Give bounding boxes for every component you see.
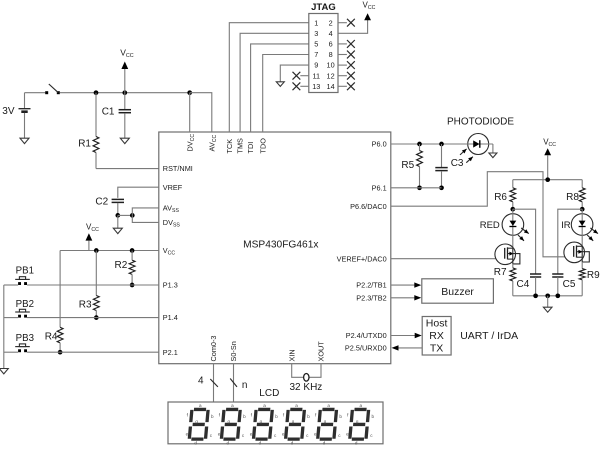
svg-text:n: n [242, 380, 248, 391]
ground below C2 [117, 215, 119, 228]
node junction R2 top [130, 248, 135, 253]
bus slash 4 [210, 379, 218, 387]
svg-text:C2: C2 [95, 196, 108, 207]
wire R6 junction to C4 [513, 209, 536, 274]
node junction R1 [94, 90, 99, 95]
wire DVcc to MCU [189, 93, 191, 132]
supply Vcc symbol top-left [124, 65, 126, 70]
resistor R5 [419, 144, 421, 151]
wire P2.1 line [4, 351, 18, 353]
photodiode symbol [473, 140, 479, 147]
svg-text:C4: C4 [517, 279, 530, 290]
LCD 7-segment digit 5 [314, 403, 342, 445]
svg-text:14: 14 [327, 82, 335, 91]
svg-text:Com0-3: Com0-3 [209, 336, 218, 362]
svg-text:TMS: TMS [236, 138, 245, 154]
wire P2.2/TB1 to buzzer [391, 284, 415, 286]
wire RED MOSFET source to R7 [512, 264, 514, 268]
battery B1 3V [24, 93, 26, 108]
LED RED emission arrows [521, 228, 529, 234]
wire P2.3/TB2 to buzzer [391, 297, 415, 299]
svg-text:C1: C1 [102, 107, 115, 118]
svg-text:R3: R3 [79, 299, 92, 310]
no-connect X JTAG pin11 [300, 75, 309, 77]
no-connect X JTAG pin12 [338, 75, 347, 77]
resistor R6 [512, 180, 514, 188]
svg-text:TX: TX [430, 342, 443, 354]
svg-text:RX: RX [429, 330, 444, 342]
svg-text:TDI: TDI [246, 142, 255, 154]
svg-text:R6: R6 [494, 192, 507, 203]
LCD display module [168, 402, 383, 444]
svg-text:UART / IrDA: UART / IrDA [460, 330, 518, 342]
node junction C1/Vcc [122, 90, 127, 95]
node junction AVss DVss [130, 213, 135, 218]
wire AVss [132, 208, 159, 216]
wire TDO to JTAG pin7 [263, 55, 309, 133]
LCD 7-segment digit 3 [250, 403, 278, 445]
wire LED Vcc rail [513, 179, 582, 181]
capacitor C1 [124, 93, 126, 110]
wire P2.4/UTXD0 to host RX [391, 335, 415, 337]
svg-text:VREF: VREF [163, 183, 183, 192]
node junction DVcc [187, 90, 192, 95]
push button PB2 [18, 315, 21, 318]
wire TMS to JTAG pin3 [240, 33, 309, 132]
ground below battery [20, 138, 29, 143]
svg-text:P2.4/UTXD0: P2.4/UTXD0 [346, 331, 387, 340]
svg-text:P6.6/DAC0: P6.6/DAC0 [350, 202, 387, 211]
crystal Y1 32 KHz [304, 374, 309, 382]
svg-text:13: 13 [312, 82, 320, 91]
wire push button common to ground [3, 285, 5, 368]
svg-text:2: 2 [329, 18, 333, 27]
svg-text:8: 8 [329, 50, 333, 59]
capacitor C3 [441, 144, 443, 167]
svg-text:32 KHz: 32 KHz [290, 382, 323, 393]
LCD 7-segment digit 6 [346, 403, 374, 445]
wire JTAG pin9 to ground [280, 65, 309, 82]
LED RED D2 [502, 214, 524, 236]
svg-text:11: 11 [313, 71, 321, 80]
svg-text:10: 10 [327, 61, 335, 70]
LED IR D3 [571, 214, 593, 236]
wire VREF to C2 [118, 187, 159, 198]
no-connect X JTAG pin10 [338, 64, 347, 66]
svg-text:6: 6 [329, 40, 333, 49]
no-connect X JTAG pin14 [338, 85, 347, 87]
wire JTAG pin4 to Vcc [338, 20, 368, 34]
node junction C4 bottom [533, 293, 538, 298]
wire VEREF+/DAC0 to RED MOSFET gate [391, 258, 505, 260]
ground LED rail [543, 307, 552, 312]
svg-text:R7: R7 [494, 267, 507, 278]
svg-text:PHOTODIODE: PHOTODIODE [447, 116, 514, 127]
node junction C3 top [439, 142, 444, 147]
svg-text:PB1: PB1 [16, 265, 34, 276]
node junction ground rail [545, 293, 550, 298]
svg-text:TDO: TDO [258, 138, 267, 154]
svg-text:C3: C3 [451, 158, 464, 169]
node junction C3 bottom [439, 185, 444, 190]
svg-text:1: 1 [314, 18, 318, 27]
wire S0-Sn to LCD [233, 364, 235, 402]
node junction R6 bottom [510, 207, 515, 212]
svg-text:3: 3 [314, 29, 318, 38]
wire R1 to RST/NMI [96, 168, 159, 170]
svg-text:TCK: TCK [225, 139, 234, 154]
photodiode D1 [468, 134, 489, 155]
wire XOUT to crystal [309, 364, 321, 378]
buzzer module [422, 279, 494, 303]
resistor R9 [579, 269, 585, 280]
svg-text:VEREF+/DAC0: VEREF+/DAC0 [337, 254, 387, 263]
node junction R3 bottom on P1.4 [94, 315, 99, 320]
wire Vcc rail to pull-ups [60, 250, 159, 252]
svg-text:P2.3/TB2: P2.3/TB2 [356, 293, 386, 302]
svg-text:MSP430FG461x: MSP430FG461x [243, 240, 318, 251]
svg-text:R5: R5 [401, 160, 414, 171]
bus slash n [230, 379, 237, 387]
LCD 7-segment digit 2 [218, 403, 246, 445]
node junction Vcc rail [545, 177, 550, 182]
capacitor C2 [112, 198, 124, 200]
svg-text:P2.2/TB1: P2.2/TB1 [356, 281, 386, 290]
svg-text:Buzzer: Buzzer [441, 286, 474, 298]
node junction R3 top [94, 248, 99, 253]
svg-text:4: 4 [329, 29, 333, 38]
photodiode incident light arrows [460, 149, 467, 155]
resistor R1 [95, 93, 97, 137]
node junction R2 bottom on P1.3 [130, 283, 135, 288]
no-connect X JTAG pin8 [338, 54, 347, 56]
wire AVcc to MCU [190, 93, 212, 132]
LCD 7-segment digit 4 [282, 403, 310, 445]
svg-text:P1.3: P1.3 [163, 281, 178, 290]
supply Vcc symbol LED rail [547, 151, 549, 155]
no-connect X JTAG pin2 [338, 22, 347, 24]
svg-text:P6.1: P6.1 [372, 183, 387, 192]
svg-text:XOUT: XOUT [317, 341, 326, 362]
svg-text:PB2: PB2 [16, 299, 34, 310]
svg-text:12: 12 [327, 71, 335, 80]
host interface box [422, 317, 451, 356]
MOSFET Q1 RED driver [495, 244, 516, 265]
svg-text:IR: IR [561, 220, 571, 231]
supply Vcc symbol pull-up rail [88, 236, 90, 240]
svg-text:9: 9 [314, 61, 318, 70]
wire switch to Vcc rail [60, 92, 190, 94]
wire TCK to JTAG pin1 [229, 23, 308, 132]
capacitor C4 [530, 273, 541, 275]
svg-text:R2: R2 [115, 260, 128, 271]
resistor R7 [510, 268, 516, 281]
capacitor C5 [552, 273, 563, 275]
resistor R8 [581, 180, 583, 188]
svg-text:R1: R1 [78, 139, 91, 150]
wire rail to ground [547, 296, 549, 307]
switch S1 [25, 92, 46, 94]
push button PB1 [18, 282, 21, 285]
wire P1.4 line [4, 317, 18, 319]
MOSFET Q2 IR driver [564, 242, 585, 263]
wire P1.3 line [4, 284, 18, 286]
resistor R3 [95, 251, 97, 296]
wire host TX to P2.5/URXD0 [398, 347, 422, 349]
svg-text:PB3: PB3 [16, 333, 34, 344]
ground photodiode [489, 153, 497, 158]
push button PB3 [18, 349, 21, 352]
resistor R4 [59, 251, 61, 328]
node junction R4 bottom on P2.1 [58, 350, 63, 355]
IC U1 MSP430FG461x [159, 132, 391, 364]
node junction C5 bottom [555, 293, 560, 298]
wire C2 junction to AVss/DVss junction [118, 214, 133, 216]
connector J1 JTAG header [309, 14, 338, 93]
supply Vcc symbol JTAG [367, 16, 369, 20]
ground below C1 [120, 138, 129, 143]
wire XIN to crystal [292, 364, 304, 378]
svg-text:5: 5 [314, 40, 318, 49]
node junction below C2 [115, 213, 120, 218]
svg-text:7: 7 [314, 50, 318, 59]
svg-text:LCD: LCD [259, 388, 279, 399]
resistor R2 [129, 260, 135, 274]
svg-text:RED: RED [480, 220, 500, 231]
svg-text:R9: R9 [587, 270, 600, 281]
svg-text:P6.0: P6.0 [372, 140, 387, 149]
svg-text:R4: R4 [45, 331, 58, 342]
svg-text:P2.5/URXD0: P2.5/URXD0 [345, 344, 387, 353]
svg-text:4: 4 [198, 376, 204, 387]
svg-text:XIN: XIN [287, 349, 296, 361]
svg-text:S0-Sn: S0-Sn [229, 341, 238, 361]
wire P6.6/DAC0 route to IR MOSFET gate [391, 172, 574, 257]
svg-text:3V: 3V [2, 106, 15, 117]
wire R8 junction to C5 [558, 209, 582, 274]
svg-text:JTAG: JTAG [311, 2, 336, 13]
wire P6.1 line [391, 187, 442, 189]
wire TDI to JTAG pin5 [251, 44, 309, 132]
ground JTAG pin9 [276, 82, 284, 87]
node junction R5 top [417, 142, 422, 147]
svg-text:Host: Host [426, 317, 448, 329]
LED IR emission arrows [590, 228, 598, 234]
no-connect X JTAG pin6 [338, 43, 347, 45]
node junction R8 bottom [580, 207, 585, 212]
ground push buttons [0, 369, 8, 374]
svg-text:R8: R8 [566, 192, 579, 203]
wire DVss [132, 215, 159, 222]
svg-text:RST/NMI: RST/NMI [163, 164, 193, 173]
wire Com0-3 to LCD [213, 364, 215, 402]
svg-text:C5: C5 [563, 279, 576, 290]
LCD 7-segment digit 1 [186, 403, 214, 445]
wire LED bottom rail [513, 295, 582, 297]
no-connect X JTAG pin13 [300, 85, 309, 87]
wire photodiode to ground [492, 144, 494, 153]
svg-text:P1.4: P1.4 [163, 313, 178, 322]
svg-text:P2.1: P2.1 [163, 348, 178, 357]
wire P6.0 line [391, 143, 493, 145]
wire IR MOSFET source to R9 [581, 262, 583, 269]
node junction R5 bottom [417, 185, 422, 190]
